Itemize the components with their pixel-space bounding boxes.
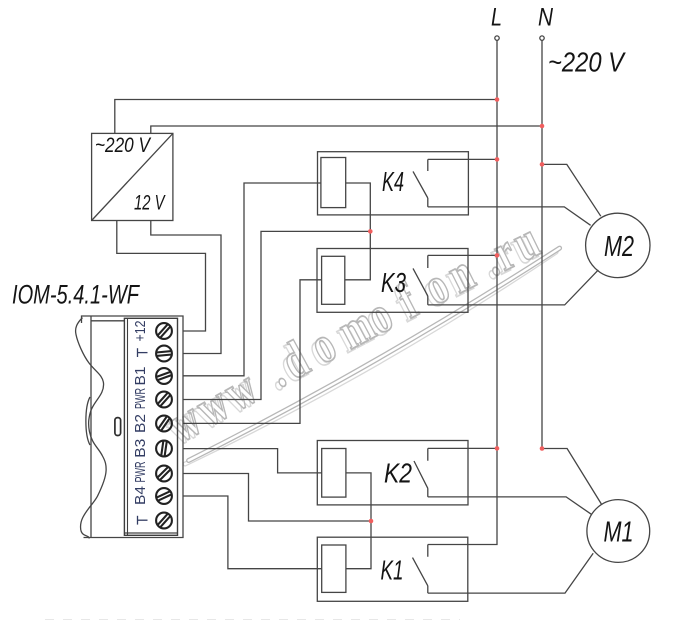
screw 5 xyxy=(156,416,172,432)
node N M1 junction xyxy=(540,446,545,451)
node L K2 junction xyxy=(495,446,500,451)
module clip slot xyxy=(115,418,121,436)
relay K3 outer box xyxy=(317,249,468,313)
svg-text:B2: B2 xyxy=(132,414,149,433)
wire K4 contact top to L xyxy=(428,158,497,160)
svg-text:PWR: PWR xyxy=(132,461,149,482)
relay K1 contact xyxy=(413,545,428,594)
svg-text:K4: K4 xyxy=(382,166,404,197)
wire PWR screw to K4 K3 coils junction xyxy=(183,231,370,399)
screw 1 xyxy=(156,323,172,339)
relay K2 contact xyxy=(414,448,428,497)
node L K3 junction xyxy=(495,253,500,258)
module side arc detail xyxy=(86,397,90,445)
svg-text:B4: B4 xyxy=(132,486,149,505)
node N transformer junction xyxy=(540,124,545,129)
wire N to motor M1 xyxy=(542,449,602,505)
svg-text:~220 V: ~220 V xyxy=(548,47,626,78)
screw 6 xyxy=(156,441,172,457)
wire K4 coil right to K3 coil right xyxy=(345,183,371,280)
wire L line vertical xyxy=(428,40,497,544)
wire K2 contact top to L xyxy=(428,447,497,449)
relay K3 contact xyxy=(413,255,428,305)
svg-text:B1: B1 xyxy=(132,367,149,386)
svg-text:M2: M2 xyxy=(604,231,634,263)
relay K4 outer box xyxy=(318,152,469,215)
terminal labels xyxy=(132,321,149,525)
module top inner line xyxy=(91,320,124,322)
svg-text:K2: K2 xyxy=(384,458,412,489)
node N terminal circle xyxy=(540,36,544,40)
wire K2 contact bottom to M1 xyxy=(428,497,591,514)
relay K1 outer box xyxy=(317,537,468,601)
bottom cropped dashes xyxy=(45,619,460,620)
node L transformer junction xyxy=(495,97,500,102)
wire K1 contact bottom to M1 xyxy=(428,553,593,593)
svg-text:N: N xyxy=(538,4,554,32)
wire K2 coil right to K1 coil right xyxy=(346,473,371,569)
screw 9 xyxy=(156,513,172,529)
wire transformer primary to L xyxy=(115,100,497,134)
relay K2 outer box xyxy=(317,441,468,505)
wire B4 screw to K1 coil xyxy=(183,496,322,569)
node K2 K1 coil junction xyxy=(369,519,374,524)
module IOM body outline xyxy=(76,316,183,539)
module wavy freehand edge xyxy=(76,318,107,539)
svg-text:L: L xyxy=(491,4,502,32)
wire B1 screw to K4 coil xyxy=(183,183,321,376)
wire B3 screw to K2 coil xyxy=(183,449,322,473)
wire K3 contact top to L xyxy=(428,254,497,256)
wire B2 screw to K3 coil xyxy=(183,280,322,424)
terminal strip box xyxy=(124,318,177,535)
node L terminal circle xyxy=(495,36,499,40)
svg-text:B3: B3 xyxy=(132,439,149,458)
node N M2 junction xyxy=(540,162,545,167)
wire K3 contact bottom to M2 xyxy=(428,270,599,305)
screw 3 xyxy=(156,368,172,384)
screw 4 xyxy=(156,392,172,408)
svg-text:PWR: PWR xyxy=(132,388,149,409)
relay K3 coil xyxy=(322,256,345,304)
transformer T1 diagonal xyxy=(92,133,173,220)
wire transformer primary to N xyxy=(151,126,542,133)
transformer T1 box xyxy=(92,133,173,220)
wire K4 contact bottom to M2 xyxy=(428,207,591,225)
svg-text:~220 V: ~220 V xyxy=(95,134,152,157)
svg-text:M1: M1 xyxy=(604,517,634,549)
node K4 K3 coil junction xyxy=(368,229,373,234)
motor M1 circle xyxy=(587,500,650,563)
svg-text:+12: +12 xyxy=(132,321,149,342)
label gnd bottom xyxy=(138,516,148,525)
svg-text:K1: K1 xyxy=(381,555,404,586)
screw 2 xyxy=(156,346,172,362)
wire PWR screw to K2 K1 coils junction xyxy=(183,474,371,522)
terminal strip inner edge xyxy=(127,318,129,535)
label gnd top xyxy=(138,348,148,357)
screw terminals xyxy=(156,323,172,528)
node L K4 junction xyxy=(495,157,500,162)
relay K2 coil xyxy=(322,449,346,498)
wire transformer 12V right to gnd screw xyxy=(151,221,221,354)
relay K1 coil xyxy=(322,545,346,592)
screw 8 xyxy=(156,488,172,504)
svg-text:K3: K3 xyxy=(381,267,406,298)
svg-text:IOM-5.4.1-WF: IOM-5.4.1-WF xyxy=(12,280,140,310)
svg-text:12 V: 12 V xyxy=(134,192,166,215)
wire N line vertical xyxy=(541,40,543,448)
wire N to motor M2 xyxy=(542,164,601,216)
wire transformer 12V left to +12 screw xyxy=(117,221,206,332)
motor M2 circle xyxy=(586,213,650,277)
relay K4 coil xyxy=(321,158,346,208)
strip bottom inner line xyxy=(124,532,177,534)
watermark www.domofon.ru xyxy=(154,210,559,464)
junction dots xyxy=(368,97,544,523)
relay K4 contact xyxy=(413,159,428,207)
screw 7 xyxy=(156,466,172,482)
